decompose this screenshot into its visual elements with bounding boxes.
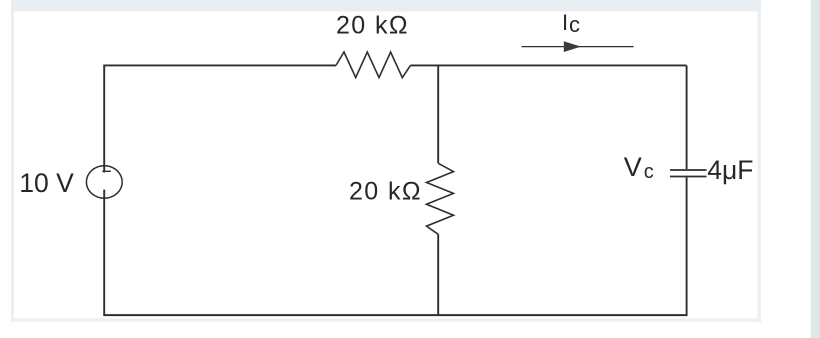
svg-text:20 kΩ: 20 kΩ xyxy=(349,177,422,205)
svg-text:4μF: 4μF xyxy=(707,155,753,185)
svg-text:c: c xyxy=(644,161,654,183)
svg-text:10 V: 10 V xyxy=(19,168,74,198)
svg-text:20 kΩ: 20 kΩ xyxy=(336,11,409,39)
svg-text:c: c xyxy=(569,12,580,37)
svg-text:V: V xyxy=(624,152,642,182)
svg-text:I: I xyxy=(562,10,568,35)
